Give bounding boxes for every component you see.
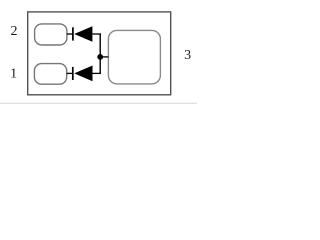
- LED chip E2 (bottom rounded box): [34, 64, 66, 85]
- diode D2 triangle: [74, 66, 92, 82]
- svg-text:3: 3: [184, 48, 191, 63]
- wire bottom rule: [0, 102, 197, 104]
- wire box2 to diode D2: [67, 72, 73, 74]
- LED chip E1 (top rounded box): [35, 24, 67, 45]
- diode D1 cathode bar: [72, 27, 74, 40]
- diode D2 cathode bar: [72, 67, 74, 80]
- wire node to detector box: [100, 56, 108, 58]
- diode D1 triangle: [74, 26, 92, 42]
- wire box1 to diode D1: [67, 33, 73, 35]
- svg-text:2: 2: [11, 24, 18, 39]
- svg-text:1: 1: [10, 67, 17, 82]
- detector chip U1 (big rounded box): [108, 30, 160, 84]
- wire D2 anode to bus: [93, 72, 101, 74]
- junction node dot: [97, 54, 103, 60]
- wire D1 anode to bus: [92, 33, 101, 35]
- wire anode bus vertical: [99, 33, 101, 74]
- package outline rectangle: [28, 12, 171, 95]
